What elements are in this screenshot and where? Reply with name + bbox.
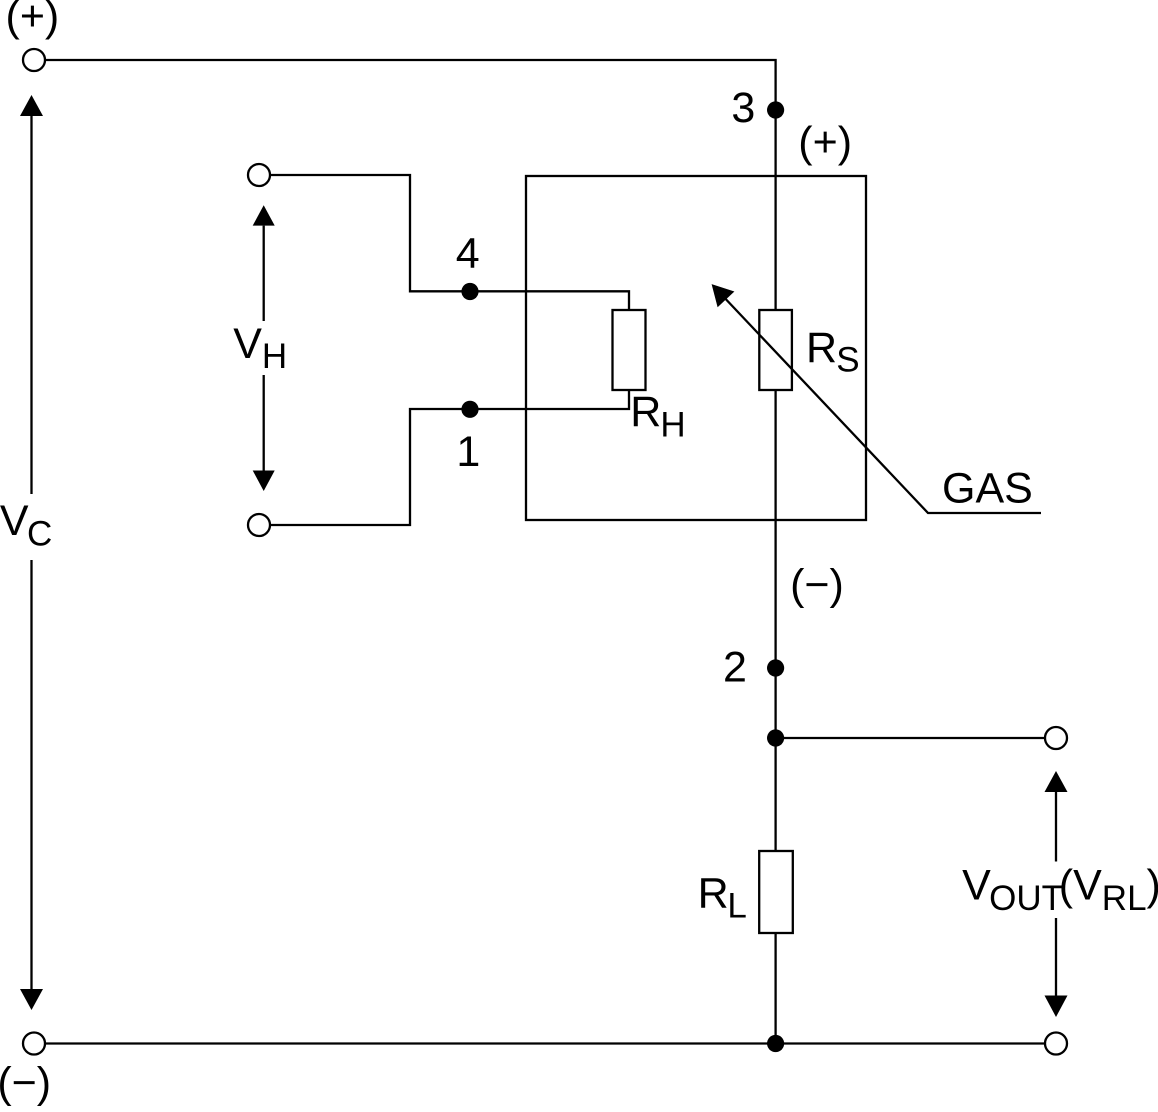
svg-text:RL: RL — [1102, 879, 1147, 918]
resistor RS body — [759, 310, 792, 390]
svg-text:R: R — [806, 324, 837, 372]
svg-text:C: C — [27, 515, 52, 554]
terminal VC(+) — [23, 49, 45, 71]
svg-text:OUT: OUT — [989, 879, 1063, 918]
wire: bottom rail — [45, 1042, 1045, 1044]
wire: top rail from (+) terminal to pin 3 and down to Rs — [45, 60, 776, 310]
svg-text:4: 4 — [456, 230, 480, 278]
VH measurement arrow (double headed) — [253, 205, 275, 491]
output tap junction dot — [767, 729, 784, 746]
svg-text:V: V — [962, 862, 991, 910]
resistor RL body — [759, 851, 793, 933]
svg-text:R: R — [698, 869, 729, 917]
wire: heater lead from VH top terminal to pin 4 and RH top — [270, 175, 629, 310]
node 3 junction dot — [767, 101, 784, 118]
sensor package box — [526, 176, 866, 520]
svg-text:S: S — [836, 340, 859, 379]
wire: output tap from node 2 junction to VOUT terminal — [776, 737, 1045, 739]
terminal VOUT top — [1045, 727, 1067, 749]
svg-text:GAS: GAS — [942, 464, 1033, 512]
svg-text:V: V — [0, 497, 29, 545]
VC measurement arrow (double headed) — [20, 95, 43, 1010]
svg-text:L: L — [727, 887, 746, 926]
GAS arrow (diagonal pointer with underline) — [712, 284, 1041, 513]
VOUT measurement arrow (double headed) — [1045, 771, 1068, 1017]
svg-text:2: 2 — [723, 644, 747, 692]
svg-text:): ) — [1147, 862, 1158, 910]
terminal VH top — [248, 164, 270, 186]
svg-text:(−): (−) — [0, 1059, 51, 1107]
svg-text:V: V — [233, 320, 262, 368]
node 2 junction dot — [767, 659, 784, 676]
svg-text:V: V — [1073, 862, 1102, 910]
node 4 junction dot — [461, 283, 478, 300]
terminal VOUT bottom — [1045, 1033, 1067, 1055]
bottom rail junction dot — [767, 1035, 784, 1052]
svg-text:1: 1 — [456, 428, 480, 476]
wire: heater lead from RH bottom to pin 1 and VH bottom terminal — [270, 390, 629, 525]
svg-text:3: 3 — [731, 84, 755, 132]
svg-text:(+): (+) — [798, 119, 852, 167]
svg-text:(: ( — [1059, 862, 1074, 910]
wire: main vertical from Rs bottom down to bottom rail — [774, 390, 776, 1044]
svg-text:H: H — [262, 337, 287, 376]
terminal VH bottom — [248, 514, 270, 536]
resistor RH body — [613, 310, 646, 390]
svg-text:H: H — [660, 405, 685, 444]
svg-text:(+): (+) — [6, 0, 60, 41]
svg-text:R: R — [630, 388, 661, 436]
node 1 junction dot — [461, 401, 478, 418]
svg-text:(−): (−) — [790, 561, 844, 609]
terminal VC(-) — [23, 1033, 45, 1055]
